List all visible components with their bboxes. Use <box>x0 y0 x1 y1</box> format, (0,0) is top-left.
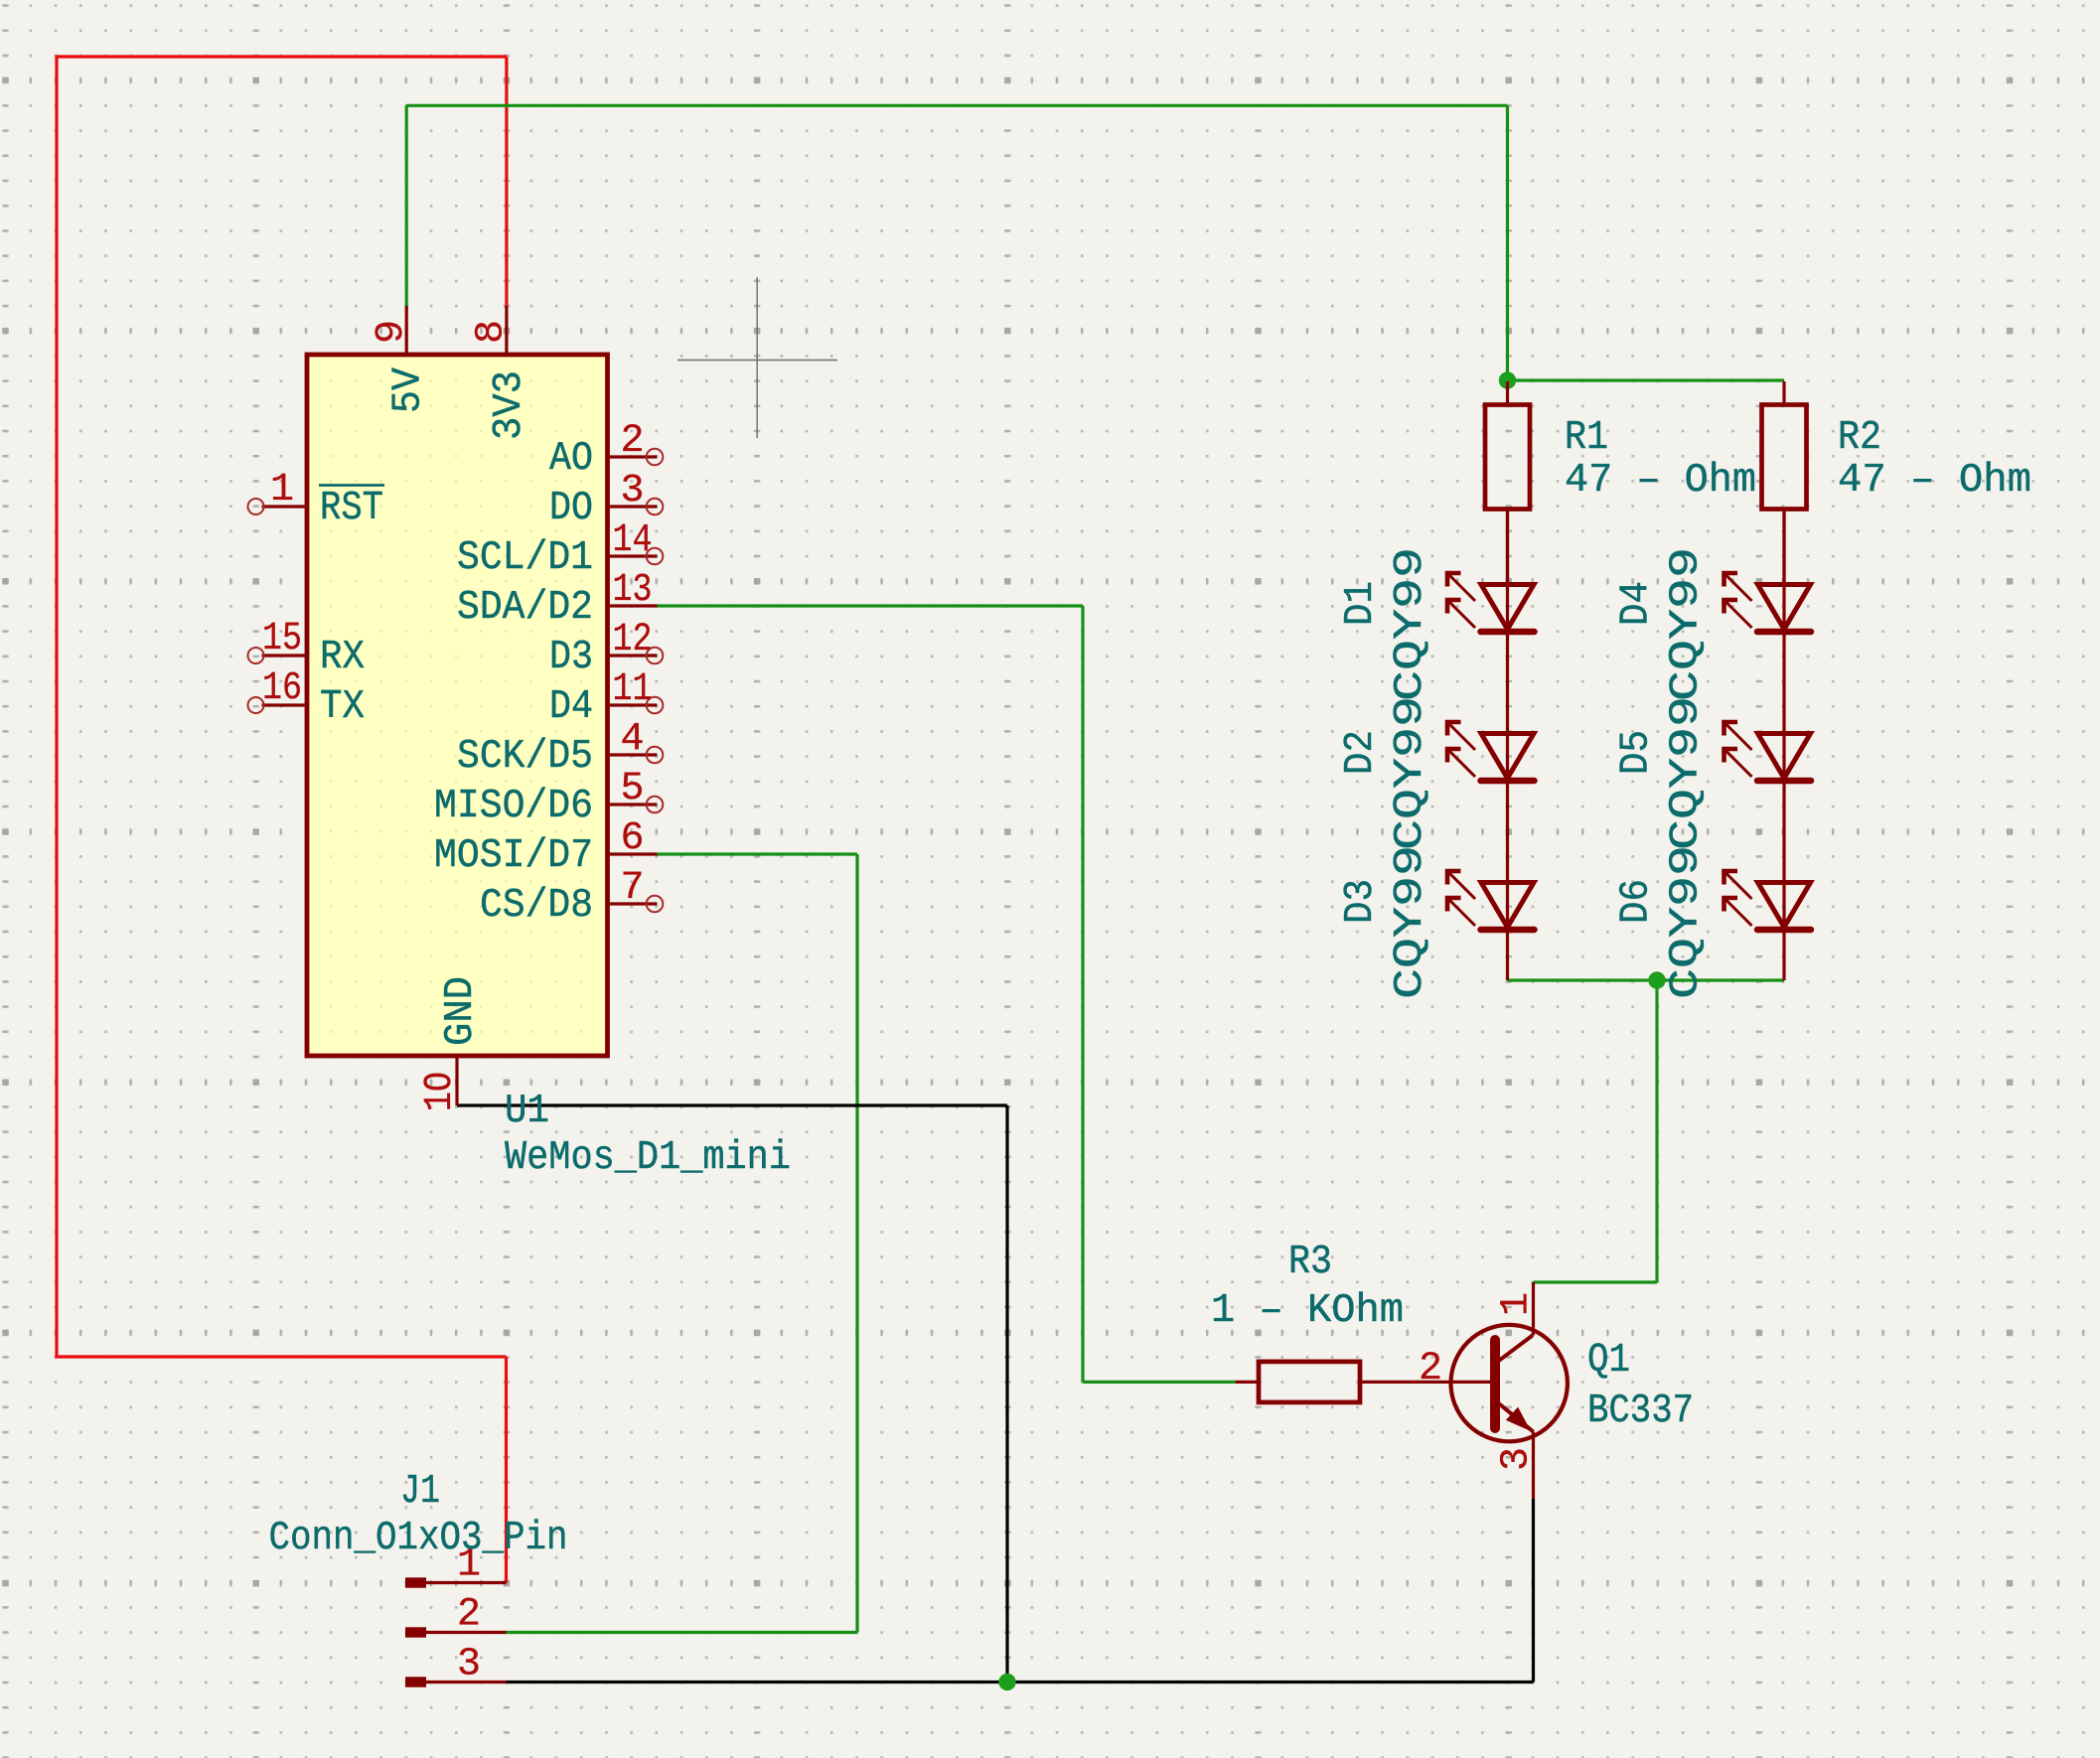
junction at R1/R2 top <box>1499 371 1516 388</box>
svg-text:4: 4 <box>620 717 644 762</box>
wire green down to R1 <box>1506 105 1509 381</box>
svg-text:D1: D1 <box>1338 581 1384 626</box>
svg-text:1 – KOhm: 1 – KOhm <box>1211 1288 1404 1334</box>
svg-text:Q1: Q1 <box>1587 1338 1630 1384</box>
svg-text:D2: D2 <box>1338 730 1384 775</box>
svg-text:15: 15 <box>262 617 302 661</box>
LED D4 CQY99 <box>1725 573 1812 632</box>
junction at LED bottom rail <box>1648 971 1665 988</box>
wire black GND vertical <box>1005 1105 1008 1683</box>
svg-text:D4: D4 <box>1614 581 1660 626</box>
svg-text:DO: DO <box>549 486 593 531</box>
wire green vertical SDA <box>1081 606 1084 1382</box>
svg-text:D6: D6 <box>1614 879 1660 924</box>
U1 pin 2 line <box>608 455 658 458</box>
svg-text:MISO/D6: MISO/D6 <box>434 784 593 829</box>
J1 pin 2 line <box>426 1631 507 1634</box>
U1 pin 6 line <box>608 852 658 855</box>
svg-text:U1: U1 <box>505 1089 549 1134</box>
wire black GND horizontal <box>457 1103 1007 1106</box>
U1 pin 1 line <box>262 505 308 508</box>
wire green to Q1 collector <box>1534 1280 1658 1283</box>
Q1 emitter diagonal <box>1495 1400 1534 1432</box>
svg-text:3V3: 3V3 <box>487 370 532 440</box>
Q1 emitter arrow <box>1506 1407 1531 1431</box>
transistor Q1 BC337 <box>1451 1325 1568 1441</box>
svg-text:12: 12 <box>613 618 653 662</box>
wire black GND bottom <box>507 1681 1534 1684</box>
svg-text:8: 8 <box>470 320 515 344</box>
RST overline <box>319 484 384 487</box>
svg-text:CS/D8: CS/D8 <box>480 883 593 929</box>
svg-text:J1: J1 <box>400 1469 440 1515</box>
svg-text:SCK/D5: SCK/D5 <box>457 734 593 780</box>
wire red bottom horizontal to J1 <box>55 1355 506 1358</box>
LED D1 CQY99 <box>1447 573 1535 632</box>
J1 pin 3 stub <box>405 1677 426 1686</box>
svg-text:R1: R1 <box>1565 415 1608 461</box>
svg-text:R2: R2 <box>1838 415 1881 461</box>
wire green from SDA/D2 <box>658 604 1084 607</box>
svg-text:CQY99: CQY99 <box>1664 547 1710 701</box>
wire green top horizontal <box>406 104 1507 107</box>
R3 right pin / Q1 base pin <box>1360 1381 1491 1384</box>
wire green to R2 top <box>1508 378 1785 381</box>
wire green to J1 pin2 <box>507 1631 858 1634</box>
svg-text:D3: D3 <box>1338 879 1384 924</box>
svg-text:CQY99: CQY99 <box>1388 845 1433 999</box>
Q1 collector diagonal <box>1495 1335 1533 1363</box>
resistor R3 <box>1259 1362 1360 1402</box>
U1 pin 15 line <box>262 654 308 657</box>
wire green from MOSI/D7 <box>658 852 858 855</box>
svg-text:CQY99: CQY99 <box>1388 696 1433 850</box>
svg-text:BC337: BC337 <box>1587 1389 1694 1434</box>
svg-text:2: 2 <box>457 1593 481 1638</box>
J1 pin 2 stub <box>405 1627 426 1637</box>
svg-text:SDA/D2: SDA/D2 <box>457 585 593 631</box>
svg-text:47 – Ohm: 47 – Ohm <box>1565 458 1756 504</box>
U1 pin 5 line <box>608 803 658 806</box>
svg-text:AO: AO <box>549 436 593 482</box>
svg-text:16: 16 <box>262 666 302 711</box>
svg-text:GND: GND <box>438 976 484 1046</box>
U1 pin 4 line <box>608 753 658 756</box>
wire green into R3 <box>1083 1381 1236 1384</box>
U1 pin 16 line <box>262 703 308 706</box>
R3 left pin <box>1236 1381 1259 1384</box>
J1 pin 1 stub <box>405 1577 426 1587</box>
svg-text:3: 3 <box>457 1643 481 1687</box>
wire green vertical MOSI <box>855 854 858 1633</box>
svg-text:1O: 1O <box>418 1072 463 1111</box>
svg-text:Conn_O1xO3_Pin: Conn_O1xO3_Pin <box>269 1516 568 1561</box>
svg-text:5: 5 <box>620 767 644 811</box>
svg-text:9: 9 <box>370 320 414 344</box>
resistor R2 <box>1762 405 1807 510</box>
svg-text:WeMos_D1_mini: WeMos_D1_mini <box>505 1135 791 1181</box>
wire green down from rail <box>1655 980 1658 1282</box>
svg-text:14: 14 <box>613 518 653 563</box>
J1 pin 3 line <box>426 1681 507 1684</box>
svg-text:SCL/D1: SCL/D1 <box>457 535 593 581</box>
wire black to Q1 emitter <box>1532 1499 1535 1683</box>
svg-text:CQY99: CQY99 <box>1388 547 1433 701</box>
LED D5 CQY99 <box>1725 722 1812 781</box>
U1 pin 7 line <box>608 902 658 905</box>
svg-text:D3: D3 <box>549 635 593 680</box>
IC U1 WeMos_D1_mini body <box>307 355 608 1056</box>
LED D2 CQY99 <box>1447 722 1535 781</box>
U1 pin 3 line <box>608 505 658 508</box>
junction at GND bottom <box>998 1674 1015 1690</box>
U1 pin 11 line <box>608 703 658 706</box>
svg-text:3: 3 <box>1495 1447 1540 1471</box>
svg-text:D5: D5 <box>1614 730 1660 775</box>
svg-text:TX: TX <box>320 684 365 730</box>
svg-text:3: 3 <box>620 469 644 513</box>
wire red drop to J1 pin1 <box>505 1357 508 1583</box>
svg-text:13: 13 <box>613 568 653 613</box>
U1 pin 9 (5V) line <box>405 306 408 355</box>
wire green from U1 5V pin 9 up <box>405 105 408 308</box>
U1 pin 13 line <box>608 604 658 607</box>
wire red to U1 3V3 pin 8 <box>505 57 508 308</box>
origin crosshair marker <box>677 277 837 438</box>
svg-text:5V: 5V <box>386 367 432 413</box>
wire chain R1-D1-D3 <box>1506 510 1509 981</box>
svg-text:7: 7 <box>620 866 644 911</box>
U1 pin 8 (3V3) line <box>505 306 508 355</box>
svg-text:RX: RX <box>320 635 365 680</box>
svg-text:6: 6 <box>620 816 644 861</box>
svg-text:CQY99: CQY99 <box>1664 845 1710 999</box>
wire chain R2-D4-D6 <box>1782 510 1785 981</box>
wire red left vertical <box>55 55 58 1357</box>
svg-text:47 – Ohm: 47 – Ohm <box>1838 458 2031 504</box>
U1 pin 12 line <box>608 654 658 657</box>
svg-text:R3: R3 <box>1288 1240 1332 1285</box>
svg-text:2: 2 <box>1419 1347 1442 1392</box>
svg-text:11: 11 <box>613 667 653 712</box>
svg-text:D4: D4 <box>549 684 593 730</box>
svg-text:CQY99: CQY99 <box>1664 696 1710 850</box>
Q1 collector pin <box>1532 1282 1535 1335</box>
wire red J1.1 net top horizontal <box>57 55 507 58</box>
svg-text:1: 1 <box>270 468 294 513</box>
LED D6 CQY99 <box>1725 871 1812 930</box>
svg-text:1: 1 <box>1495 1292 1540 1316</box>
LED D3 CQY99 <box>1447 871 1535 930</box>
U1 pin 14 line <box>608 554 658 557</box>
wire green LED bottom rail <box>1508 978 1785 981</box>
U1 pin 10 (GND) line <box>455 1056 458 1105</box>
svg-text:2: 2 <box>620 419 644 464</box>
Q1 emitter pin <box>1532 1432 1535 1500</box>
svg-text:MOSI/D7: MOSI/D7 <box>434 833 593 879</box>
svg-text:RST: RST <box>320 486 383 531</box>
resistor R1 <box>1485 405 1530 510</box>
J1 pin 1 line <box>426 1581 507 1584</box>
